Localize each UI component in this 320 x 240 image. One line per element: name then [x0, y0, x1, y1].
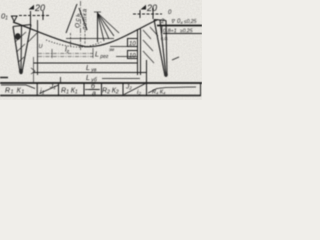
- svg-text:R1 К1: R1 К1: [5, 88, 25, 96]
- svg-text:J1: J1: [49, 83, 56, 90]
- svg-text:0,8÷1: 0,8÷1: [163, 29, 177, 35]
- svg-text:04 ≤0,25: 04 ≤0,25: [177, 19, 197, 25]
- svg-text:20: 20: [34, 3, 45, 13]
- svg-text:R4 К4: R4 К4: [152, 90, 166, 96]
- svg-text:20: 20: [146, 3, 157, 13]
- svg-text:U: U: [39, 44, 43, 50]
- svg-text:R2 К2: R2 К2: [102, 88, 119, 96]
- svg-text:J2: J2: [125, 84, 132, 91]
- svg-text:Ось: Ось: [75, 12, 82, 28]
- svg-text:10: 10: [129, 42, 136, 48]
- svg-text:лотка: лотка: [83, 8, 89, 31]
- svg-text:10: 10: [129, 54, 136, 60]
- svg-text:R1 К1: R1 К1: [61, 88, 78, 96]
- svg-text:2: 2: [160, 19, 165, 25]
- svg-text:i2: i2: [137, 89, 141, 96]
- svg-text:зм: зм: [108, 47, 114, 52]
- svg-text:с.0.: с.0.: [161, 36, 168, 41]
- svg-text:а: а: [92, 91, 96, 98]
- svg-text:i1: i1: [40, 89, 45, 97]
- svg-text:≥0,25: ≥0,25: [180, 29, 193, 35]
